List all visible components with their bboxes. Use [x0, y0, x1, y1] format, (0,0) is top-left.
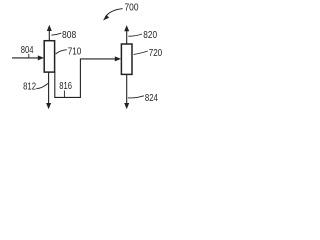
svg-text:812: 812 — [23, 82, 36, 93]
wire: output arrow up 820 from 720 — [126, 30, 128, 44]
svg-text:824: 824 — [145, 93, 158, 104]
svg-text:820: 820 — [143, 30, 157, 41]
wire: input arrow 804 into 710 — [12, 57, 40, 59]
leader for 720 — [134, 51, 148, 54]
leader for 820 — [128, 34, 142, 36]
leader for 710 — [56, 50, 67, 54]
leader for 808 — [51, 33, 61, 35]
block 710 — [44, 41, 54, 72]
wire: connector 816 from 710 bottom to 720 left — [55, 59, 117, 98]
leader for 804 — [28, 54, 30, 58]
wire: down arrow 824 from 720 — [126, 74, 128, 104]
wire: down arrow 812 from 710 — [48, 72, 50, 104]
svg-text:808: 808 — [62, 30, 76, 41]
leader for 824 — [128, 96, 144, 98]
svg-text:710: 710 — [68, 46, 82, 57]
svg-text:816: 816 — [59, 81, 72, 92]
block 720 — [121, 44, 132, 74]
leader for 816 — [63, 91, 65, 98]
svg-text:700: 700 — [125, 3, 139, 14]
svg-text:720: 720 — [149, 48, 163, 59]
leader for 812 — [36, 83, 48, 88]
leader arrow for 700 — [106, 9, 123, 17]
wire: output arrow up 808 from 710 — [48, 30, 50, 41]
svg-text:804: 804 — [21, 45, 34, 56]
